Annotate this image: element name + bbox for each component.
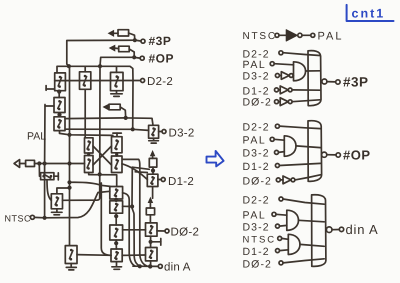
wire inverter out — [302, 34, 311, 36]
transistor M2 — [110, 201, 123, 213]
junction M2/M3 — [114, 214, 118, 218]
transistor M1 — [110, 187, 123, 200]
wire L2 top to pull-up — [132, 167, 149, 169]
wire M2-M3 — [115, 213, 117, 225]
svg-text:PAL: PAL — [243, 59, 267, 71]
svg-text:D3-2: D3-2 — [243, 221, 270, 233]
ground below QD3 — [149, 138, 159, 143]
junction on bus — [98, 64, 102, 68]
node — [276, 178, 280, 182]
wire vertical x70 — [69, 66, 71, 245]
inverter U1 — [286, 30, 302, 41]
junction on bus — [67, 64, 71, 68]
junction vert99 — [98, 172, 102, 176]
wire box2 top stub — [84, 66, 86, 72]
wire D3-2 to G3a — [280, 224, 287, 227]
wire W1 vertical x139.8 — [123, 159, 147, 266]
latch transistor Q8 (LL) — [85, 156, 94, 173]
wire down to HT — [39, 164, 40, 177]
svg-text:din A: din A — [164, 262, 191, 274]
svg-text:PAL: PAL — [243, 209, 267, 221]
resistor R2 (#OP pull-up) — [110, 45, 134, 57]
wire QN top stub — [57, 188, 70, 194]
svg-text:D3-2: D3-2 — [243, 71, 270, 83]
wire to inverter — [279, 34, 286, 36]
wire y254 left — [77, 254, 111, 257]
bubble + node dinA — [326, 227, 343, 233]
transistor QD1 (D1-2 driver) — [147, 174, 158, 186]
svg-text:PAL: PAL — [243, 135, 267, 147]
svg-text:D3-2: D3-2 — [243, 148, 270, 160]
svg-text:D1-2: D1-2 — [243, 161, 270, 173]
node #OP terminal — [132, 55, 144, 60]
junction + gate bar right — [149, 239, 161, 246]
junction x70 y188 — [67, 186, 71, 190]
wire NTSC — [34, 191, 109, 218]
svg-text:NTSC: NTSC — [5, 214, 32, 224]
wire net-#OP to bus — [100, 57, 134, 66]
wire PAL vertical lower — [44, 164, 46, 218]
junctions y163 — [37, 161, 71, 165]
junction below Q1 — [57, 90, 61, 94]
wire to gate G1 — [292, 75, 294, 77]
wire curve L1 — [123, 193, 135, 266]
latch transistor Q6 (UL) — [85, 138, 94, 153]
resistor R1 (#3P pull-up) — [109, 30, 135, 41]
wire line-P (D3-2 drain) — [65, 118, 153, 125]
node D3-2 terminal — [159, 130, 166, 134]
wire G2 out — [296, 146, 320, 148]
node — [275, 74, 279, 78]
node NTSC in — [275, 33, 279, 37]
svg-text:#3P: #3P — [343, 75, 369, 90]
transistor QN (NTSC) — [51, 194, 62, 209]
bubble + node #OP — [322, 152, 341, 157]
junction line-A — [131, 127, 135, 131]
svg-text:D2-2: D2-2 — [147, 76, 173, 88]
node — [279, 197, 283, 201]
wire line-A (D3-2 gate) — [66, 129, 149, 130]
transistor M3 — [110, 225, 123, 240]
wire cross-couple X — [93, 146, 112, 165]
wire G3a out — [299, 220, 325, 222]
node D1-2 terminal — [158, 178, 165, 182]
transistor Q5 — [54, 117, 65, 131]
wire G3b out — [300, 244, 324, 246]
wire D2-2 to block2 — [279, 126, 320, 129]
wire gate bus y80.7 (D2-2 row) — [55, 80, 141, 82]
wire D2-2 to block3 — [283, 199, 324, 204]
gate bar right of HT — [54, 173, 58, 180]
block B2 (#OP NAND) — [308, 121, 322, 182]
svg-text:PAL: PAL — [27, 130, 46, 142]
svg-text:NTSC: NTSC — [243, 234, 276, 245]
ground below M4 — [112, 267, 122, 270]
wire QD1 gate from latch — [122, 164, 147, 180]
wire M3-M4 — [115, 240, 117, 249]
svg-text:D1-2: D1-2 — [243, 85, 270, 97]
wire net-#3P to bus — [67, 40, 135, 66]
transistor Q1 — [55, 73, 66, 91]
wire D1-2 to block2 — [279, 163, 320, 165]
node — [275, 150, 279, 154]
svg-text:#OP: #OP — [149, 52, 175, 66]
node — [276, 249, 280, 253]
wire Q2 bottom to latch — [84, 89, 86, 137]
wire D3-2 to G2 — [279, 151, 285, 154]
latch transistor Q9 (LR) — [112, 156, 123, 173]
wire QD0 bottom — [150, 236, 152, 247]
block B3 (dinA NAND) — [312, 195, 326, 267]
wire PAL to gate G1 — [274, 64, 293, 65]
svg-text:DØ-2: DØ-2 — [171, 226, 200, 238]
wire latch stubs — [87, 153, 118, 156]
label cnt1 (blue corner box) — [347, 5, 394, 21]
wire M2 right — [123, 205, 133, 207]
wire bus y66 — [57, 66, 133, 129]
wire y182 to M1 top — [70, 182, 111, 186]
svg-text:D1-2: D1-2 — [168, 176, 194, 188]
wire box3 top stub — [116, 66, 118, 72]
node — [270, 137, 274, 141]
svg-text:din A: din A — [346, 222, 379, 237]
node — [275, 164, 279, 168]
node dinA terminal — [158, 264, 162, 268]
block B1 (#3P NAND) — [308, 51, 321, 106]
pull-up PU2 (D0-2) — [146, 198, 154, 223]
svg-text:cnt1: cnt1 — [352, 7, 386, 21]
node — [278, 236, 282, 240]
wire to block1 — [292, 89, 320, 91]
wire Q5 bottom jog to latch gate — [60, 131, 113, 136]
wire PAL to G2 — [274, 138, 284, 141]
wire Q4 gate — [45, 105, 54, 107]
svg-text:DØ-2: DØ-2 — [243, 175, 273, 187]
gate bar above latch UR — [113, 133, 121, 137]
junction on x70 — [67, 133, 71, 137]
junction L2 — [130, 204, 134, 208]
wire D2-2 to block1 — [283, 53, 320, 56]
node — [270, 62, 274, 66]
wire din bottom rail — [133, 265, 158, 267]
node PAL out — [311, 33, 315, 37]
node — [275, 124, 279, 128]
wire D0 gate row — [123, 229, 146, 231]
wire curve L3 — [101, 183, 111, 255]
pull-up PU1 (D1-2) — [149, 151, 157, 174]
junction line-P — [124, 116, 128, 120]
junction Q4/Q5 — [57, 113, 61, 117]
wire D0-2 to block3 — [283, 259, 324, 263]
svg-text:D1-2: D1-2 — [243, 246, 270, 258]
svg-text:D2-2: D2-2 — [243, 121, 270, 133]
inverter on D3-2 — [279, 72, 293, 80]
node — [279, 51, 283, 55]
wire latch LL bottom to M1 — [89, 173, 117, 187]
transistor Q3 (D2-2 driver) — [111, 72, 124, 90]
transistor Q4 — [54, 98, 65, 113]
node #3P terminal — [133, 38, 145, 43]
transistor QD0 (D0-2 driver) — [146, 223, 158, 236]
bubble + node #3P — [322, 79, 340, 84]
svg-text:#OP: #OP — [343, 148, 371, 163]
node — [279, 261, 283, 265]
wire y163 — [35, 163, 85, 165]
inverter on D1-2 — [279, 86, 293, 94]
node — [272, 212, 276, 216]
wire to block2 — [295, 175, 321, 180]
node — [276, 224, 280, 228]
transistor HT (horizontal) — [41, 173, 54, 180]
wire y254 right (din gate) — [122, 254, 145, 256]
inverter on D0-2 — [279, 98, 293, 106]
wire PAL to G3a — [276, 213, 287, 216]
blue implication arrow — [207, 151, 224, 167]
ground below Q3 — [111, 91, 122, 97]
wire net PAL vertical — [44, 105, 46, 164]
wire HT bottom to QN — [47, 180, 51, 201]
wire Qdin to rail — [150, 261, 152, 266]
svg-text:#3P: #3P — [149, 34, 172, 48]
node D2-2 terminal — [141, 79, 145, 83]
node NTSC terminal — [30, 215, 34, 219]
junction M3/M4 — [114, 241, 118, 245]
node D0-2 terminal — [157, 229, 169, 233]
ground below QB — [66, 264, 76, 270]
wire W3 — [135, 171, 147, 174]
svg-text:D2-2: D2-2 — [243, 195, 270, 207]
gate bar left of Q1 — [46, 86, 55, 91]
transistor QD3 (D3-2 driver) — [149, 125, 159, 138]
wire QD1 bottom — [152, 187, 154, 199]
junction x70 y182 — [67, 180, 71, 184]
arrow out A1 — [14, 160, 34, 168]
svg-text:NTSC: NTSC — [243, 31, 277, 42]
ground below QN — [52, 209, 63, 215]
wire QN gate from vert99 — [63, 66, 101, 200]
transistor QB (bottom-left) — [65, 246, 77, 264]
resistor R3 (mid pull-up) — [104, 104, 126, 118]
inverter on D0-2 (g2) — [280, 176, 295, 184]
wire D1-2 to G3b — [280, 249, 289, 252]
wire G1 out — [306, 70, 320, 72]
transistor Qdin (din driver) — [146, 248, 158, 261]
transistor Q2 — [80, 72, 91, 90]
svg-text:D3-2: D3-2 — [169, 127, 195, 139]
junctions din rail — [138, 264, 153, 268]
svg-text:DØ-2: DØ-2 — [243, 258, 273, 270]
wire M4 bottom — [116, 262, 118, 266]
transistor M4 — [111, 249, 122, 262]
wire curve L2 — [132, 167, 140, 266]
wire to block1 — [292, 100, 320, 102]
svg-text:PAL: PAL — [318, 31, 344, 43]
latch transistor Q7 (UR) — [112, 137, 123, 153]
gate G1 (and PAL+D3-2) — [294, 62, 306, 81]
junction M1/M2 — [114, 198, 118, 202]
node — [275, 100, 279, 104]
gate G3b (and NTSC+D1-2) — [288, 234, 300, 254]
junction NTSC — [43, 216, 47, 220]
wire NTSC to G3b — [282, 237, 289, 240]
gate G3a (and PAL+D3-2) — [287, 210, 299, 230]
node — [275, 88, 279, 92]
gate G2 (and PAL+D3-2) — [284, 136, 296, 157]
svg-text:DØ-2: DØ-2 — [243, 97, 273, 109]
wire Q1 to Q4 — [58, 91, 60, 98]
